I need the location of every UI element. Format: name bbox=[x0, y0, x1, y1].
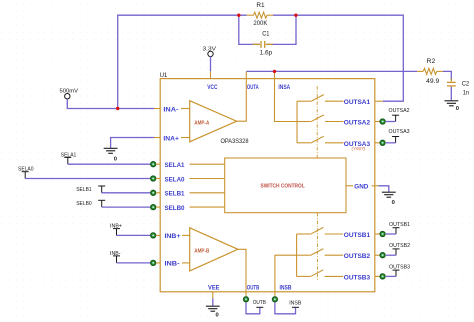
svg-text:INB-: INB- bbox=[165, 261, 180, 268]
svg-text:INB+: INB+ bbox=[165, 233, 181, 240]
VEE pin stub down bbox=[212, 292, 214, 299]
wire OUTSB3 to terminal bbox=[386, 275, 396, 277]
svg-text:C1: C1 bbox=[262, 32, 270, 38]
INA+ pin stub bbox=[154, 137, 160, 139]
svg-text:R2: R2 bbox=[427, 59, 437, 65]
pin INB- green node bbox=[151, 260, 156, 265]
svg-text:OUTA: OUTA bbox=[247, 84, 259, 91]
svg-text:OUTSB2: OUTSB2 bbox=[344, 253, 371, 260]
svg-text:SELB1: SELB1 bbox=[165, 191, 185, 198]
control dash-dot line B bbox=[316, 213, 318, 281]
capacitor C2 bbox=[447, 79, 456, 89]
VCC pin stub bbox=[210, 71, 212, 78]
pin OUTSB3 green node bbox=[380, 274, 385, 279]
GND stub from switch control bbox=[346, 185, 353, 187]
A-side bus vertical bbox=[296, 101, 298, 143]
wire INA+ with ground bbox=[111, 138, 155, 148]
wire INB+ stub bbox=[156, 234, 160, 236]
wire SELA0 to switch control bbox=[190, 178, 225, 180]
svg-text:(Y607): (Y607) bbox=[352, 146, 366, 151]
OUTSA2 pin stub bbox=[375, 121, 380, 123]
switch A3 bbox=[297, 136, 344, 143]
wire C1 branch left bbox=[239, 15, 260, 44]
ground at INA+ bbox=[104, 148, 118, 153]
svg-text:OUTSB1: OUTSB1 bbox=[344, 232, 371, 239]
pin OUTB green node bbox=[244, 297, 249, 302]
wire INB+ bbox=[117, 234, 152, 236]
wire feedback net: INA- up and across top bbox=[118, 15, 247, 108]
svg-text:SELA1: SELA1 bbox=[165, 162, 185, 169]
switch B3 bbox=[297, 270, 344, 277]
svg-text:OUTB: OUTB bbox=[247, 285, 260, 292]
B-side switch bus INSB bbox=[275, 255, 297, 292]
wire 3.3V to VCC pin bbox=[210, 57, 212, 72]
wire INB- bbox=[117, 262, 152, 264]
wire C2 to ground bbox=[450, 87, 452, 101]
svg-text:INA+: INA+ bbox=[163, 135, 179, 142]
wire OUTSB1 to terminal bbox=[386, 233, 396, 235]
junction node at R1 right bbox=[294, 14, 297, 17]
wire SELB1 bbox=[102, 192, 152, 194]
svg-text:INSA: INSA bbox=[278, 84, 290, 91]
switch control block bbox=[225, 158, 346, 213]
pin SELA0 green node bbox=[151, 176, 156, 181]
pin SELA1 green node bbox=[151, 162, 156, 167]
wire OUTA pin stub up bbox=[245, 71, 247, 78]
svg-text:OUTSA2: OUTSA2 bbox=[389, 108, 410, 114]
svg-text:C2: C2 bbox=[462, 81, 470, 87]
junction node at R1 left bbox=[237, 14, 240, 17]
svg-text:OUTSA2: OUTSA2 bbox=[344, 120, 371, 127]
INA- pin stub bbox=[154, 108, 160, 110]
capacitor C1 bbox=[253, 41, 273, 48]
junction node at INA- feedback bbox=[116, 107, 119, 110]
svg-text:SELB0: SELB0 bbox=[76, 201, 92, 207]
OUTSB2 pin stub bbox=[375, 254, 380, 256]
svg-text:200K: 200K bbox=[253, 21, 267, 27]
wire AMP-B output to OUTB bbox=[238, 249, 246, 291]
resistor R2 bbox=[417, 68, 443, 74]
svg-text:VEE: VEE bbox=[208, 285, 220, 292]
A-side switch bus INSA bbox=[275, 79, 298, 122]
wire AMP-A output to OUTA bbox=[237, 79, 247, 122]
svg-text:0: 0 bbox=[114, 157, 117, 163]
svg-text:49.9: 49.9 bbox=[426, 79, 440, 85]
pin SELB0 green node bbox=[151, 205, 156, 210]
pin OUTSA3 green node bbox=[380, 140, 385, 145]
switch B2 bbox=[297, 249, 344, 256]
wire OUTSB2 to terminal bbox=[386, 254, 396, 256]
svg-text:OPA3S328: OPA3S328 bbox=[221, 139, 250, 145]
OUTB pin stub down bbox=[245, 292, 247, 296]
ground at C2 bbox=[445, 101, 459, 106]
wire SELA1 bbox=[68, 163, 152, 165]
B-side bus vertical bbox=[296, 234, 298, 276]
GND pin stub to edge bbox=[372, 185, 379, 187]
wire OUTSA2 to terminal bbox=[386, 121, 396, 123]
svg-text:0: 0 bbox=[216, 312, 219, 318]
wire INB- stub bbox=[156, 262, 160, 264]
svg-text:SELA0: SELA0 bbox=[165, 176, 185, 183]
svg-text:OUTSA1: OUTSA1 bbox=[344, 99, 371, 106]
ground at GND bbox=[382, 192, 396, 197]
wire SELB0 bbox=[102, 206, 152, 208]
wire SELA1 stub bbox=[156, 163, 160, 165]
wire C1 branch right bbox=[266, 15, 296, 44]
svg-text:OUTB: OUTB bbox=[253, 300, 266, 306]
pin OUTSA2 green node bbox=[380, 119, 385, 124]
svg-text:SELB1: SELB1 bbox=[76, 187, 92, 193]
svg-text:OUTSB3: OUTSB3 bbox=[389, 264, 410, 270]
wire 500mV to INA- bbox=[67, 99, 154, 109]
OUTSB3 pin stub bbox=[375, 275, 380, 277]
control dash-dot line A bbox=[316, 86, 318, 158]
pin OUTSB1 green node bbox=[380, 232, 385, 237]
wire VEE to ground bbox=[212, 298, 214, 306]
wire SELB1 stub bbox=[156, 192, 160, 194]
resistor R1 bbox=[247, 12, 273, 18]
switch B1 bbox=[297, 227, 344, 234]
svg-text:R1: R1 bbox=[256, 3, 265, 9]
wire GND to ground bbox=[379, 186, 389, 192]
svg-text:U1: U1 bbox=[160, 73, 168, 79]
pin OUTSB2 green node bbox=[380, 253, 385, 258]
svg-text:INSB: INSB bbox=[289, 301, 301, 307]
wire SELA0 stub bbox=[156, 178, 160, 180]
switch A1 bbox=[297, 95, 344, 102]
svg-text:GND: GND bbox=[354, 183, 368, 190]
svg-text:0: 0 bbox=[456, 106, 459, 112]
op-amp U1A AMP-A bbox=[181, 101, 237, 142]
OUTSA1 pin stub bbox=[375, 100, 383, 102]
OUTSA3 pin stub bbox=[375, 142, 380, 144]
switch A2 bbox=[297, 115, 344, 122]
svg-text:0: 0 bbox=[392, 200, 395, 206]
wire SELB1 to switch control bbox=[190, 192, 225, 194]
svg-text:OUTSB3: OUTSB3 bbox=[344, 274, 371, 281]
svg-text:AMP-A: AMP-A bbox=[194, 120, 209, 126]
svg-text:OUTSB2: OUTSB2 bbox=[389, 243, 410, 249]
svg-text:INA-: INA- bbox=[163, 106, 178, 113]
pin INSB green node bbox=[272, 297, 277, 302]
svg-text:OUTSA3: OUTSA3 bbox=[389, 129, 410, 135]
wire OUTA/INSA net across to R2 bbox=[246, 70, 417, 72]
svg-text:1n: 1n bbox=[463, 91, 470, 97]
wire OUTB to terminal bbox=[246, 303, 260, 314]
svg-text:VCC: VCC bbox=[207, 84, 218, 91]
svg-text:OUTSB1: OUTSB1 bbox=[389, 222, 410, 228]
svg-text:SELB0: SELB0 bbox=[165, 205, 185, 212]
wire OUTSA3 to terminal bbox=[386, 142, 396, 144]
svg-text:1.6p: 1.6p bbox=[260, 51, 273, 57]
wire SELB0 to switch control bbox=[190, 206, 225, 208]
junction node INSA bbox=[273, 70, 276, 73]
wire SELA0 bbox=[25, 178, 151, 180]
wire INSA pin stub up bbox=[274, 71, 276, 78]
wire R1 right to OUTSA1 bbox=[273, 15, 403, 101]
ground at VEE bbox=[206, 306, 220, 311]
wire SELA1 to switch control bbox=[190, 163, 225, 165]
OUTSB1 pin stub bbox=[375, 233, 380, 235]
wire R2 to C2 bbox=[443, 71, 451, 80]
wire INSB to terminal bbox=[275, 303, 296, 314]
pin INB+ green node bbox=[151, 233, 156, 238]
op-amp U1B AMP-B bbox=[182, 228, 238, 271]
IC body U1 outline bbox=[160, 79, 375, 292]
pin SELB1 green node bbox=[151, 190, 156, 195]
svg-text:SWITCH CONTROL: SWITCH CONTROL bbox=[261, 184, 306, 190]
wire SELB0 stub bbox=[156, 206, 160, 208]
INSB pin stub down bbox=[274, 292, 276, 296]
svg-text:INSB: INSB bbox=[280, 285, 292, 292]
svg-text:AMP-B: AMP-B bbox=[194, 248, 209, 254]
